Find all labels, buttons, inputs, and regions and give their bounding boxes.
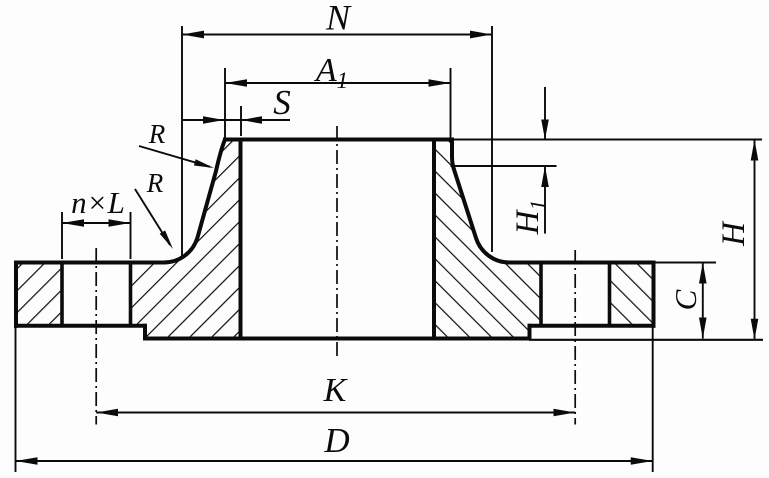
extension line A1 left <box>224 68 226 139</box>
ref line: flange top extended right for C <box>656 262 717 264</box>
dimension line C <box>702 263 704 339</box>
svg-text:S: S <box>273 83 291 122</box>
hatch fill: left hub + flange section <box>131 140 241 339</box>
svg-text:D: D <box>323 421 349 460</box>
svg-text:H1: H1 <box>510 200 550 236</box>
dimension line K <box>96 412 575 414</box>
extension line N right <box>491 26 493 252</box>
ref line: H1 lower plane <box>451 165 557 167</box>
bolt hole left: right wall <box>129 263 133 326</box>
extension line D left <box>15 326 17 472</box>
extension line N left <box>181 26 183 258</box>
raised face step right <box>528 324 532 339</box>
ring bottom face right <box>528 324 656 328</box>
dimension line S with outside arrows <box>183 119 290 121</box>
dimension line nxL <box>62 222 131 224</box>
svg-text:R: R <box>146 168 164 198</box>
bolt hole right: right wall <box>608 263 612 326</box>
flange top face left <box>14 261 165 265</box>
hatch fill: right hub + flange section <box>434 140 541 339</box>
hatch fill: right outer ring band <box>610 263 654 326</box>
leader R lower <box>135 189 170 245</box>
flange right edge <box>652 261 656 328</box>
hatch fill: left outer ring band <box>16 263 62 326</box>
svg-text:C: C <box>668 289 703 310</box>
extension line A1 right <box>450 68 452 139</box>
ref line: weld end plane extended right <box>454 139 762 141</box>
neck outer profile left (taper + fillet R) <box>164 140 225 263</box>
dimension line A1 <box>225 82 451 84</box>
centerline: flange axis (dash-dot) <box>336 126 338 358</box>
dimension line N <box>182 34 492 36</box>
centerline: right bolt hole axis <box>574 250 576 425</box>
svg-text:K: K <box>323 372 349 409</box>
svg-text:A1: A1 <box>314 52 348 93</box>
extension line D right <box>652 326 654 472</box>
flange left edge <box>14 261 18 328</box>
raised face bottom <box>143 337 532 341</box>
neck outer profile right (taper + fillet R) <box>452 140 509 263</box>
flange top face right <box>509 261 656 265</box>
centerline: left bolt hole axis <box>95 248 97 425</box>
dimension H1 lower segment <box>544 166 546 234</box>
dimension line D <box>16 460 653 462</box>
bore wall left <box>239 140 243 339</box>
bolt hole right: left wall <box>539 263 543 326</box>
dimension line H <box>754 140 756 340</box>
svg-text:n×L: n×L <box>71 185 125 220</box>
extension line nxL left <box>61 212 63 259</box>
neck top edge (weld end) <box>223 138 454 142</box>
bore wall right <box>432 140 436 339</box>
leader R upper <box>139 146 210 167</box>
raised face step left <box>143 324 147 339</box>
extension line nxL right <box>130 212 132 259</box>
ref line: flange bottom extended right for C and H <box>529 339 763 341</box>
ring bottom face left <box>14 324 147 328</box>
svg-text:R: R <box>148 119 166 149</box>
dimension H1 upper segment <box>544 87 546 140</box>
bolt hole left: left wall <box>60 263 64 326</box>
svg-text:N: N <box>325 0 352 38</box>
svg-text:H: H <box>716 220 752 247</box>
extension line S right <box>240 106 242 136</box>
